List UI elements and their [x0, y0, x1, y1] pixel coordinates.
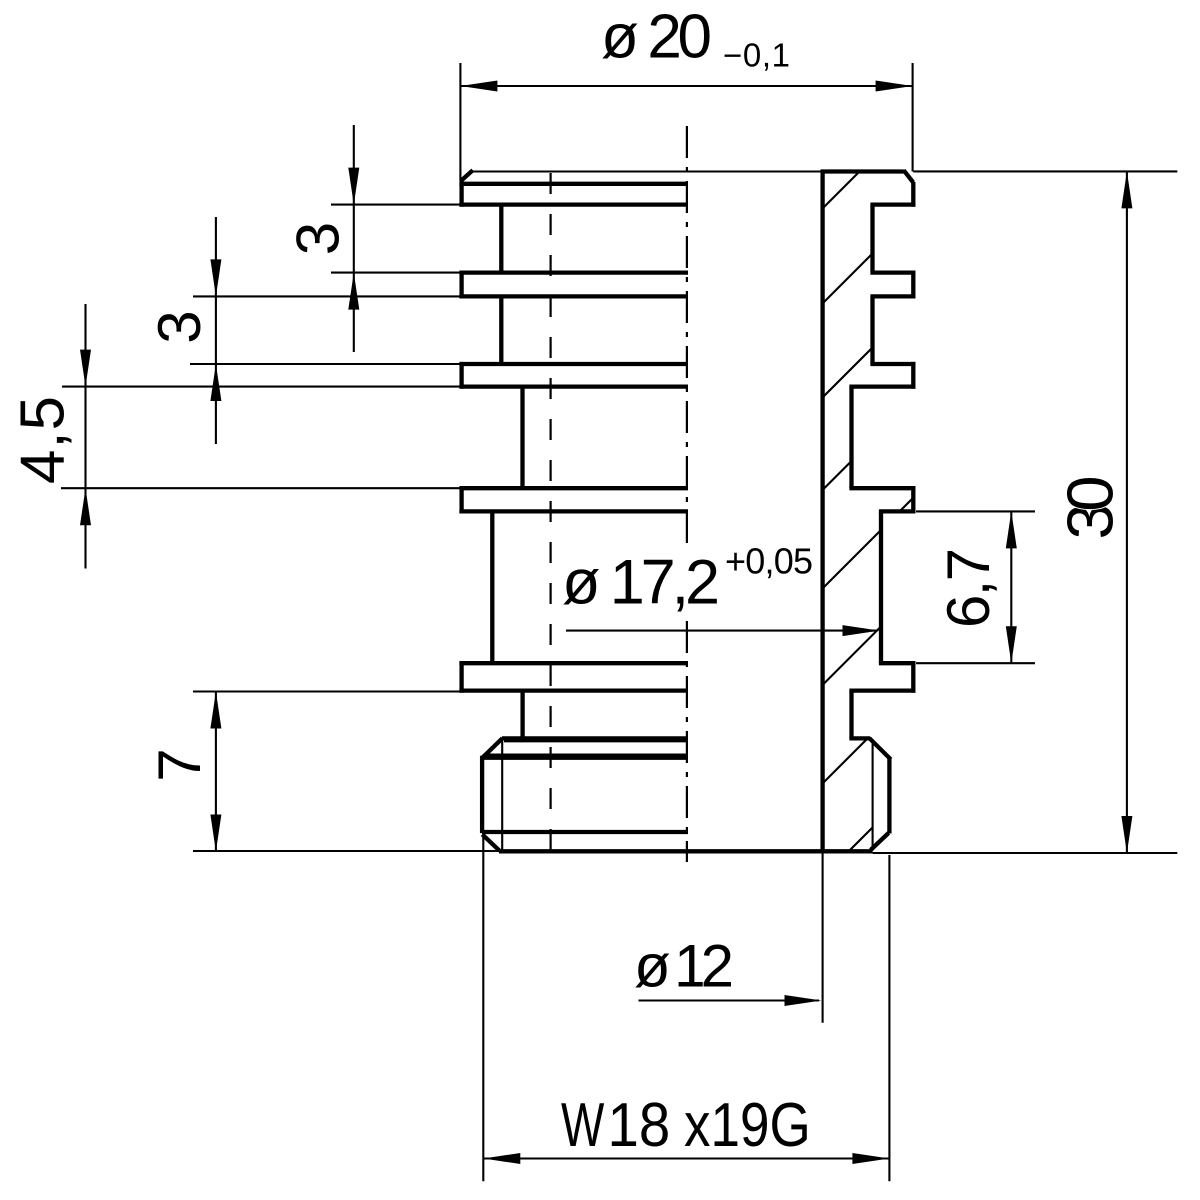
fin F1 outer edge right [911, 182, 915, 207]
dim 7 extension top [193, 690, 460, 692]
fin F4 bottom right [879, 509, 916, 513]
fin F2 bottom right [870, 294, 915, 298]
collar outer silhouette [480, 756, 484, 833]
svg-text:6,7: 6,7 [935, 548, 1002, 628]
thread root line (thin) [501, 741, 503, 851]
svg-text:ø 20: ø 20 [601, 3, 712, 72]
dim ø20 line [460, 85, 912, 87]
fin F2 top right [870, 270, 915, 274]
svg-text:30: 30 [1054, 476, 1127, 540]
bore wall cut edge (ø12) [820, 172, 824, 852]
dim W18 extension right [888, 855, 890, 1181]
fin F3 top edge [459, 362, 688, 366]
fin F4 left edge [459, 486, 463, 513]
fin F1 bottom right [870, 202, 915, 206]
dim 3b line [215, 217, 217, 444]
dim W18 line [483, 1157, 889, 1159]
dim 4,5 arrow bottom [80, 488, 91, 525]
dim 7 arrow top [210, 692, 221, 729]
top-left rim chamfer [462, 170, 473, 180]
dim 6,7 extension top [916, 510, 1035, 512]
bore extension line below part [822, 853, 824, 1023]
fin F2 bottom edge [459, 294, 688, 298]
dim 3b extension bottom [190, 363, 460, 365]
web W2 right [870, 296, 874, 364]
dim 4,5 extension top [62, 386, 460, 388]
thread root line right (thin) [872, 740, 874, 851]
core web W2 [499, 296, 503, 364]
dim 3a extension bottom [331, 272, 460, 274]
core web W1 [499, 205, 503, 273]
dim ø20 extension left [459, 63, 461, 180]
svg-text:+0,05: +0,05 [725, 541, 813, 582]
fin F5 bottom edge [459, 688, 688, 692]
dim 3b extension top [193, 295, 460, 297]
fin F2 outer edge right [911, 271, 915, 299]
fin F4 bottom edge [459, 509, 688, 513]
dim 3a arrow bottom [348, 273, 359, 310]
hidden bore line (dashed) [549, 173, 551, 850]
collar outer silhouette right [887, 758, 891, 834]
dim ø20 arrow right [876, 81, 913, 92]
fin F5 top right [879, 661, 916, 665]
text mask [558, 548, 726, 618]
dim 30 arrow bottom [1121, 816, 1132, 853]
thread collar: top face edge [502, 736, 688, 740]
fin F4 top right [849, 486, 915, 490]
dim ø17,2 arrow [843, 625, 880, 636]
dim 3a line [353, 125, 355, 352]
svg-text:ø 12: ø 12 [634, 933, 734, 1000]
fin F3 left edge [459, 362, 463, 389]
svg-text:3: 3 [146, 310, 213, 343]
fin F1 bottom edge [459, 202, 688, 206]
dim W18 arrow right [852, 1153, 889, 1164]
fin F1 top edge [459, 182, 688, 186]
fin F3 bottom edge [459, 384, 688, 388]
fin F5 top edge [459, 661, 688, 665]
core web right (ø17.2 surface) [879, 511, 883, 663]
fin F4 outer edge right [911, 486, 915, 513]
svg-text:W: W [561, 1090, 605, 1159]
centerline axis (dash-dot) [686, 126, 688, 862]
bottom face edge [499, 849, 873, 853]
collar chamfer-start edge [482, 830, 688, 834]
fin F3 bottom right [849, 384, 915, 388]
dim 6,7 line [1010, 511, 1012, 663]
fin F4 top edge [459, 486, 688, 490]
top-right rim chamfer [904, 170, 914, 182]
thread runout aux line (thin) [484, 754, 688, 756]
dim 6,7 extension bottom [916, 662, 1035, 664]
web W3 right [849, 387, 853, 489]
dim 7 extension bottom [193, 850, 500, 852]
svg-text:7: 7 [146, 748, 213, 781]
dim 4,5 extension bottom [61, 487, 460, 489]
dim 7 line [215, 692, 217, 852]
thread crest aux line (thin) [504, 740, 688, 742]
dim 30 extension bottom [873, 852, 1178, 854]
dim 30 line [1126, 171, 1128, 853]
dim 4,5 line [84, 304, 86, 569]
web W5 right [849, 691, 853, 739]
neck web W5 [520, 691, 524, 739]
dim 30 extension top [913, 170, 1177, 172]
fin F5 left edge [459, 661, 463, 693]
collar bottom chamfer [482, 834, 499, 850]
dim ø20 extension right [912, 63, 914, 172]
web W1 right [870, 205, 874, 273]
collar bottom chamfer right [871, 833, 889, 850]
thread full-form edge [482, 756, 688, 760]
dim W18 extension left [482, 833, 484, 1181]
dim W18 arrow left [483, 1153, 520, 1164]
svg-text:x19G: x19G [684, 1091, 811, 1160]
dim 7 arrow bottom [210, 815, 221, 852]
fin F5 bottom right [849, 688, 915, 692]
dim 6,7 arrow top [1006, 511, 1017, 548]
dim 3b arrow bottom [210, 364, 221, 401]
fin F5 outer edge right [911, 661, 915, 693]
fin F2 top edge [459, 270, 688, 274]
dim 4,5 arrow top [80, 350, 91, 387]
hatch lines [131, 150, 1200, 900]
svg-text:4,5: 4,5 [9, 396, 78, 484]
top face edge (thin, visible) [473, 170, 823, 172]
dim 6,7 arrow bottom [1006, 626, 1017, 663]
dim 3a extension top [331, 204, 460, 206]
dim ø12 leader line [639, 999, 820, 1001]
core web W3 [520, 387, 524, 489]
svg-text:ø 17,2: ø 17,2 [562, 548, 720, 618]
top face cut edge (thick, section side) [821, 169, 904, 173]
collar top face right [849, 736, 870, 740]
svg-text:−0,1: −0,1 [723, 37, 790, 74]
fin F2 left edge [459, 271, 463, 299]
fin F1 left edge [459, 179, 463, 207]
dim 30 arrow top [1121, 171, 1132, 208]
dim 3b arrow top [210, 259, 221, 296]
core web W4 [490, 511, 494, 663]
dim ø12 arrow [785, 995, 822, 1006]
svg-text:18: 18 [608, 1090, 671, 1160]
dim ø20 arrow left [460, 81, 497, 92]
dim ø17,2 leader line [566, 630, 877, 632]
collar top chamfer right [869, 738, 891, 759]
svg-text:3: 3 [285, 222, 352, 255]
fin F3 top right [870, 362, 915, 366]
collar top chamfer [482, 738, 503, 758]
fin F3 outer edge right [911, 362, 915, 389]
dim 3a arrow top [348, 168, 359, 205]
